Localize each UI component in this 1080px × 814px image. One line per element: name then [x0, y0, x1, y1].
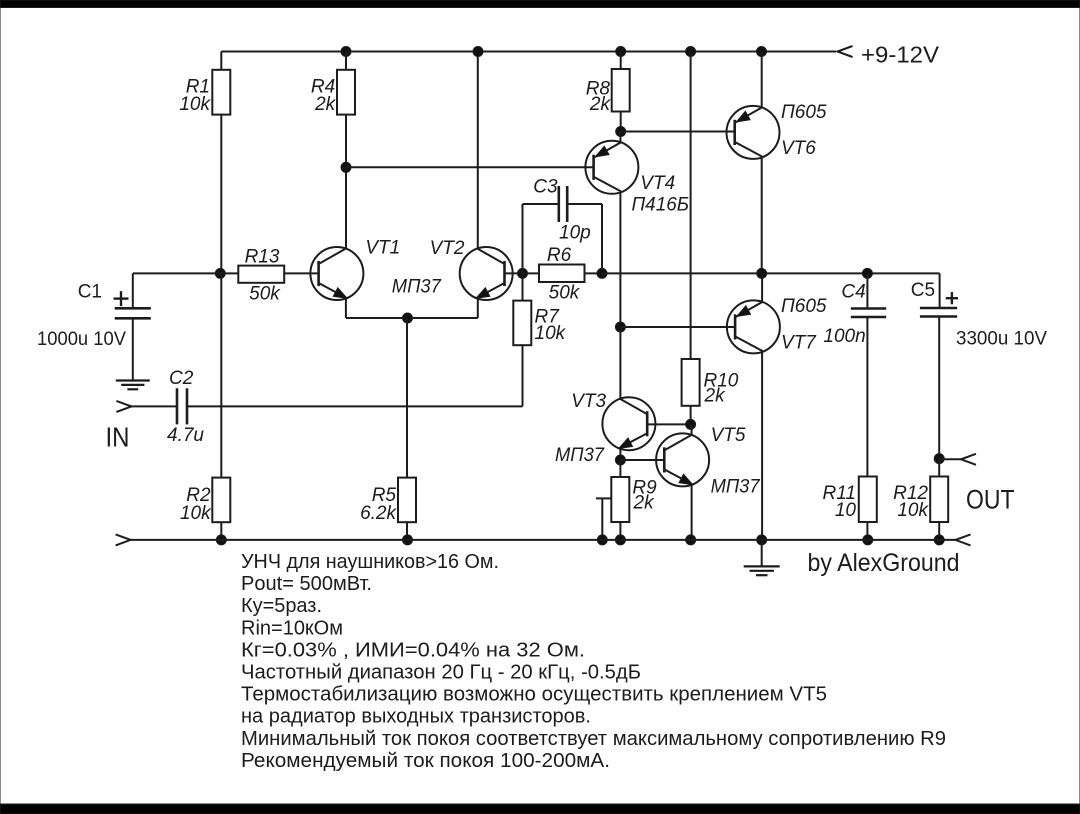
svg-text:by AlexGround: by AlexGround — [808, 549, 960, 577]
label R7 — [535, 307, 561, 328]
label R13 — [245, 247, 280, 268]
svg-text:VT6: VT6 — [781, 138, 816, 159]
polarity + of C5 — [946, 292, 958, 304]
wire top rail corner to R1 — [220, 52, 222, 70]
label R7 value 10k — [535, 323, 567, 344]
label R13 value 50k — [249, 283, 281, 304]
wire node OUT stub — [939, 458, 961, 460]
description text block — [241, 551, 946, 772]
svg-text:Кг=0.03% , ИМИ=0.04% на 32 Ом.: Кг=0.03% , ИМИ=0.04% на 32 Ом. — [241, 639, 585, 661]
wire +9-12V top power rail — [221, 51, 836, 53]
wire node F to VT5 base — [620, 459, 664, 461]
svg-text:10k: 10k — [535, 323, 567, 344]
capacitor C5 — [920, 308, 957, 317]
svg-text:+9-12V: +9-12V — [861, 42, 940, 68]
junction dot top rail / R4 — [341, 47, 351, 57]
label OUT — [966, 484, 1015, 514]
label C2 value 4.7u — [167, 425, 204, 446]
transistor VT5 — [656, 433, 709, 486]
power terminal arrow +9-12V — [838, 46, 853, 57]
wire R5 bottom to ground rail — [406, 522, 408, 540]
label R10 value 2k — [704, 386, 727, 407]
wire node A to R13 — [220, 272, 238, 274]
svg-text:П605: П605 — [781, 102, 827, 123]
R9 trimmer tap — [596, 498, 611, 540]
label R5 — [372, 485, 397, 506]
wire R11 to ground rail — [866, 522, 868, 540]
svg-text:10k: 10k — [179, 94, 211, 115]
resistor R4 — [337, 70, 355, 115]
wire R13 to VT1 base — [284, 272, 318, 274]
svg-text:C4: C4 — [841, 281, 865, 302]
label C2 — [169, 368, 194, 389]
capacitor C1 top lead — [132, 273, 134, 308]
svg-text:10k: 10k — [897, 500, 929, 521]
label VT7 — [781, 333, 817, 354]
wire node F to R9 — [619, 460, 621, 477]
junction dot R2 / ground rail — [216, 535, 226, 545]
junction dot node C (R10/VT3 base/VT5 collector) — [686, 419, 696, 429]
junction dot top rail / VT6 emitter — [757, 47, 767, 57]
capacitor C4 — [851, 309, 886, 318]
junction dot node E (VT2 base/R6/R7/C3) — [518, 268, 528, 278]
label VT3 type МП37 — [555, 445, 605, 466]
label by AlexGround — [808, 549, 960, 577]
svg-text:10p: 10p — [559, 222, 591, 243]
resistor R6 — [539, 265, 585, 283]
svg-text:Рекомендуемый ток покоя 100-20: Рекомендуемый ток покоя 100-200мА. — [241, 750, 610, 772]
svg-text:Минимальный ток покоя соответс: Минимальный ток покоя соответствует макс… — [241, 728, 946, 750]
capacitor C1 — [115, 308, 151, 318]
wire top rail down to R10 — [690, 52, 692, 360]
label +9-12V — [861, 42, 940, 68]
junction dot node A (R1/R2/R13/C1) — [215, 268, 225, 278]
label R5 value 6.2k — [360, 503, 397, 524]
resistor R8 — [612, 69, 630, 112]
wire C4 to R11 — [866, 317, 868, 477]
transistor VT1 — [310, 247, 363, 300]
ground rail terminal arrow left — [116, 534, 131, 545]
label C5 value 3300u 10V — [956, 328, 1047, 349]
wire node OUT to R12 — [938, 459, 940, 477]
resistor R12 — [930, 477, 948, 523]
ground below C1 — [116, 381, 150, 390]
wire R12 to ground rail — [938, 522, 940, 540]
svg-text:VT2: VT2 — [430, 238, 465, 259]
junction dot node D (VT4 collector/VT7 base/VT3 collector) — [615, 322, 625, 332]
svg-text:3300u 10V: 3300u 10V — [956, 328, 1047, 349]
svg-text:C3: C3 — [533, 177, 558, 198]
svg-text:50k: 50k — [249, 283, 281, 304]
label C4 — [841, 281, 865, 302]
resistor R7 — [513, 301, 531, 346]
svg-text:VT7: VT7 — [781, 333, 817, 354]
capacitor C2 — [177, 388, 187, 424]
resistor R2 — [212, 478, 230, 523]
svg-text:VT3: VT3 — [571, 391, 606, 412]
svg-text:2k: 2k — [314, 94, 337, 115]
svg-text:МП37: МП37 — [392, 276, 442, 297]
wire output rail to C4 — [866, 273, 868, 308]
label C3 — [533, 177, 558, 198]
label R4 value 2k — [314, 94, 337, 115]
wire R4 bottom to VT1 collector — [345, 115, 347, 249]
wire C1 bottom to ground — [132, 318, 134, 379]
wire VT5 emitter to ground rail — [691, 485, 693, 540]
svg-text:10k: 10k — [180, 503, 212, 524]
junction dot R12 / ground rail — [934, 535, 944, 545]
ground symbol on ground rail — [744, 540, 780, 575]
label R9 value 2k — [633, 493, 656, 514]
svg-text:R13: R13 — [245, 247, 280, 268]
wire VT3 base to node C — [647, 423, 690, 425]
wire node D to VT7 base — [620, 326, 735, 328]
svg-text:2k: 2k — [704, 386, 727, 407]
svg-text:МП37: МП37 — [711, 476, 761, 497]
label VT6 type П605 — [781, 102, 827, 123]
wire VT7 collector to ground rail — [761, 352, 763, 540]
wire top rail to R8 — [620, 52, 622, 70]
svg-text:IN: IN — [106, 422, 130, 453]
svg-text:П605: П605 — [781, 296, 827, 317]
wire output rail — [602, 272, 940, 274]
svg-text:УНЧ для наушников>16 Ом.: УНЧ для наушников>16 Ом. — [241, 551, 499, 573]
label R6 value 50k — [549, 282, 581, 303]
label R1 — [186, 77, 210, 98]
label R8 value 2k — [589, 94, 612, 115]
junction dot node F (VT3 emitter/VT5 base/R9) — [615, 455, 625, 465]
wire VT1 VT2 emitter rail — [346, 298, 478, 319]
label R10 — [704, 370, 739, 391]
resistor R1 — [212, 70, 230, 115]
resistor R11 — [859, 477, 877, 523]
label C1 value 1000u 10V — [37, 329, 126, 350]
label C4 value 100n — [823, 326, 865, 347]
ground rail terminal arrow right — [956, 534, 971, 545]
wire R6 to output rail — [585, 272, 603, 274]
junction dot emitter rail / R5 — [403, 313, 413, 323]
wire top rail to R4 — [345, 52, 347, 70]
junction dot VT1 collector / VT4 base — [341, 162, 351, 172]
label VT4 type П416Б — [632, 195, 690, 216]
transistor VT2 — [460, 247, 513, 300]
wire VT7 emitter to output rail — [761, 273, 763, 302]
wire VT6 collector to output rail — [761, 157, 763, 273]
output tap arrow — [961, 454, 976, 465]
wire node A to C1 — [133, 272, 221, 274]
label VT2 — [430, 238, 465, 259]
junction dot VT5 emitter / ground rail — [686, 535, 696, 545]
label R9 — [632, 477, 657, 498]
junction dot node B (R8/VT4 emitter/VT6 base) — [616, 127, 626, 137]
label VT5 type МП37 — [711, 476, 761, 497]
svg-text:МП37: МП37 — [555, 445, 605, 466]
resistor R13 — [238, 266, 284, 283]
junction dot R5 / ground rail — [403, 535, 413, 545]
svg-text:П416Б: П416Б — [632, 195, 690, 216]
svg-text:C1: C1 — [78, 282, 102, 303]
wire IN to C2 — [131, 405, 177, 407]
resistor R5 — [398, 478, 416, 523]
svg-text:R6: R6 — [547, 245, 572, 266]
junction dot R11 / ground rail — [863, 535, 873, 545]
wire VT3 emitter to node F — [619, 449, 621, 460]
label VT5 — [711, 425, 746, 446]
polarity + of C1 — [114, 291, 129, 306]
label IN — [106, 422, 130, 453]
wire VT5 collector to node C — [691, 424, 693, 435]
svg-text:Частотный диапазон 20 Гц - 20: Частотный диапазон 20 Гц - 20 кГц, -0.5д… — [241, 662, 641, 684]
wire R8 bottom to node B — [620, 112, 622, 132]
svg-text:4.7u: 4.7u — [167, 425, 204, 446]
svg-text:OUT: OUT — [966, 484, 1015, 514]
wire top rail to VT6 emitter — [761, 52, 763, 108]
wire VT2 base to node E — [505, 272, 523, 274]
label R12 value 10k — [897, 500, 929, 521]
label C5 — [911, 280, 935, 301]
wire C3 right to R6 right node — [567, 204, 602, 273]
svg-text:Термостабилизацию возможно осу: Термостабилизацию возможно осуществить к… — [241, 684, 827, 706]
wire node E up to C3 — [523, 204, 559, 273]
label VT3 — [571, 391, 606, 412]
transistor VT6 — [727, 106, 780, 159]
label R1 value 10k — [179, 94, 211, 115]
svg-text:2k: 2k — [589, 94, 612, 115]
resistor R9 (trimmer) — [611, 477, 629, 522]
label R11 — [823, 483, 856, 504]
wire VT4 collector down to node D — [619, 192, 621, 327]
wire R10 bottom to node C — [690, 406, 692, 425]
wire R1 bottom to node A — [220, 115, 222, 274]
junction dot node OUT — [934, 454, 944, 464]
label C1 — [78, 282, 102, 303]
svg-text:100n: 100n — [823, 326, 865, 347]
junction dot top rail / R10 column — [686, 47, 696, 57]
label R2 value 10k — [180, 503, 212, 524]
junction dot VT7 collector / ground rail — [757, 535, 767, 545]
label VT6 — [781, 138, 816, 159]
wire R9 bottom to ground rail — [619, 522, 621, 540]
label R4 — [311, 77, 335, 98]
transistor VT3 — [602, 397, 655, 450]
label VT4 — [640, 173, 675, 194]
svg-text:10: 10 — [835, 500, 857, 521]
label VT7 type П605 — [781, 296, 827, 317]
svg-text:Rin=10кОм: Rin=10кОм — [241, 617, 343, 639]
wire C5 to node OUT — [938, 317, 940, 459]
junction dot top rail / R8 — [616, 47, 626, 57]
transistor VT7 — [727, 300, 780, 353]
wire node B to VT6 base — [621, 131, 735, 133]
junction dot R9 / ground rail — [615, 535, 625, 545]
svg-text:Ку=5раз.: Ку=5раз. — [241, 595, 322, 617]
svg-text:Pout= 500мВт.: Pout= 500мВт. — [241, 573, 372, 595]
svg-text:50k: 50k — [549, 282, 581, 303]
junction dot top rail / VT2 collector — [473, 47, 483, 57]
label VT1 VT2 type МП37 — [392, 276, 442, 297]
svg-text:1000u 10V: 1000u 10V — [37, 329, 126, 350]
label R6 — [547, 245, 572, 266]
junction dot R9 tap / ground rail — [597, 535, 607, 545]
wire VT2 collector to top rail — [477, 52, 479, 249]
junction dot output rail / C4 — [862, 268, 872, 278]
svg-text:VT1: VT1 — [365, 237, 400, 258]
label R12 — [893, 483, 928, 504]
svg-text:VT5: VT5 — [711, 425, 746, 446]
transistor VT4 — [585, 141, 638, 194]
label VT1 — [365, 237, 400, 258]
svg-text:C5: C5 — [911, 280, 935, 301]
svg-text:2k: 2k — [633, 493, 656, 514]
label R8 — [586, 79, 611, 100]
resistor R10 — [682, 359, 700, 406]
label R2 — [186, 485, 211, 506]
wire R2 bottom to ground rail — [220, 522, 222, 540]
svg-text:C2: C2 — [169, 368, 194, 389]
junction dot output rail / VT6 VT7 — [757, 268, 767, 278]
wire node D to VT3 collector — [619, 327, 621, 399]
svg-text:на радиатор выходных транзисто: на радиатор выходных транзисторов. — [241, 706, 591, 728]
wire emitter node down to R5 — [406, 318, 408, 478]
wire VT4 emitter to node B — [619, 132, 621, 143]
label C3 value 10p — [559, 222, 591, 243]
input terminal arrow IN — [116, 401, 131, 412]
junction dot R6 right / C3 — [597, 268, 607, 278]
label R11 value 10 — [835, 500, 857, 521]
wire C2 to R7 bottom corner — [187, 345, 523, 406]
wire node E to R7 — [522, 273, 524, 300]
wire VT1 collector node to VT4 base — [346, 166, 594, 168]
capacitor C3 — [559, 186, 567, 222]
wire ground rail — [131, 539, 956, 541]
wire node E to R6 — [523, 272, 540, 274]
wire node A down to R2 — [220, 273, 222, 477]
svg-text:6.2k: 6.2k — [360, 503, 397, 524]
wire output rail corner to C5 — [939, 273, 941, 308]
svg-text:VT4: VT4 — [640, 173, 675, 194]
